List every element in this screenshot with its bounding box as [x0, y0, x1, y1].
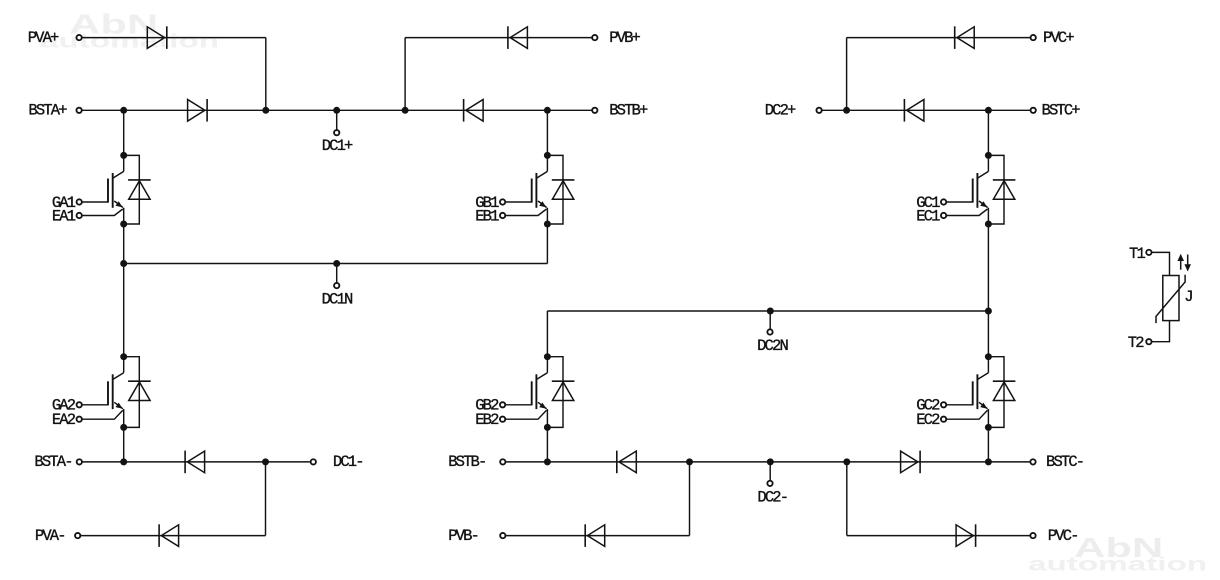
svg-text:PVC+: PVC+: [1043, 29, 1074, 47]
wire GB2 freewheel diode branch: [547, 357, 563, 428]
terminal EB1: [500, 213, 505, 218]
wire DC2+ bus row: [822, 109, 1030, 111]
terminal DC1-: [311, 459, 316, 464]
svg-text:automation: automation: [1028, 553, 1207, 575]
terminal EB2: [500, 417, 505, 422]
svg-text:DC1N: DC1N: [322, 291, 353, 309]
wire GA1 freewheel diode branch: [124, 155, 140, 224]
wire GA1 gate lead: [82, 201, 108, 203]
wire EB2 auxiliary emitter lead: [506, 410, 547, 419]
junction PVB+ branch on bus: [402, 107, 409, 114]
wire phase-B leg upper: [546, 110, 548, 155]
wire BSTA+ bus row: [82, 109, 593, 111]
svg-text:EB2: EB2: [475, 411, 499, 429]
svg-text:automation: automation: [40, 30, 219, 52]
terminal DC2N: [767, 329, 772, 334]
terminal DC2-: [767, 481, 772, 486]
wire PVA- row: [80, 535, 265, 537]
wire phase-C leg upper: [987, 110, 989, 155]
terminal DC1+: [334, 130, 339, 135]
terminal BSTC-: [1030, 459, 1035, 464]
svg-text:EC1: EC1: [916, 207, 940, 225]
terminal PVB-: [500, 533, 505, 538]
freewheel diode across GA1: [128, 180, 151, 199]
terminal PVC-: [1030, 533, 1035, 538]
terminal DC2+: [816, 108, 821, 113]
IGBT GC1: [973, 155, 989, 224]
wire GC1 freewheel diode branch: [988, 155, 1004, 224]
terminal GC2: [941, 402, 946, 407]
wire PVB- node drop: [689, 462, 691, 536]
wire DC2- stub: [769, 462, 771, 481]
svg-text:J: J: [1184, 288, 1192, 306]
wire DC1+ stub: [336, 110, 338, 130]
wire PVC+ row: [847, 37, 1031, 39]
svg-text:BSTB+: BSTB+: [609, 102, 648, 120]
svg-text:BSTB-: BSTB-: [448, 453, 485, 471]
freewheel diode across GA2: [128, 381, 151, 400]
wire EC2 auxiliary emitter lead: [947, 410, 988, 419]
wire GC1 gate lead: [947, 201, 973, 203]
diode PVB+: [508, 26, 528, 49]
terminal EA2: [77, 417, 82, 422]
svg-text:DC2-: DC2-: [757, 489, 787, 507]
wire GB1 freewheel diode branch: [547, 155, 563, 224]
wire PVC- row: [847, 535, 1030, 537]
svg-text:T2: T2: [1128, 334, 1144, 352]
junction GB2 collector node: [544, 353, 551, 360]
wire EC1 auxiliary emitter lead: [947, 209, 988, 216]
wire GB1 emitter to DC1N: [546, 224, 548, 264]
junction PVB- node: [686, 458, 693, 465]
diode DC1+ to BSTB+: [464, 99, 484, 122]
IGBT GA2: [108, 357, 124, 428]
wire PVA+ branch drop: [265, 38, 267, 111]
wire GA2 gate lead: [82, 404, 108, 406]
junction BSTA+ / phase-A leg: [120, 107, 127, 114]
junction BSTC- / phase-C leg: [985, 458, 992, 465]
svg-text:DC2N: DC2N: [757, 337, 788, 355]
svg-text:EA1: EA1: [52, 207, 76, 225]
junction GA2 collector node: [120, 353, 127, 360]
junction DC1- node: [262, 458, 269, 465]
terminal GA1: [77, 199, 82, 204]
terminal T2: [1146, 339, 1151, 344]
svg-text:PVA-: PVA-: [35, 527, 65, 545]
wire BSTA- row: [82, 461, 310, 463]
wire phase-A leg lower: [123, 427, 125, 462]
wire phase-B leg lower: [546, 427, 548, 462]
IGBT GB2: [532, 357, 548, 428]
terminal BSTB-: [500, 459, 505, 464]
diode BSTB-: [617, 451, 637, 474]
wire GA2 freewheel diode branch: [124, 357, 140, 428]
thermistor characteristic stroke: [1156, 275, 1185, 323]
wire phase-A mid leg: [123, 224, 125, 357]
terminal GB2: [500, 402, 505, 407]
wire DC1N bus: [124, 263, 548, 265]
wire phase-A leg upper: [123, 110, 125, 155]
terminal GB1: [500, 199, 505, 204]
junction GB1 collector node: [544, 152, 551, 159]
junction BSTB- / phase-B leg: [544, 458, 551, 465]
freewheel diode across GB2: [552, 381, 575, 400]
junction DC1+ tap: [333, 107, 340, 114]
terminal T1: [1146, 250, 1151, 255]
wire EA1 auxiliary emitter lead: [82, 209, 123, 216]
wire PVB+ branch drop: [404, 38, 406, 111]
terminal DC1N: [334, 283, 339, 288]
wire PVB+ row: [405, 37, 592, 39]
diode PVC+: [955, 26, 975, 49]
wire PVA+ row: [82, 37, 266, 39]
junction DC2- tap: [767, 458, 774, 465]
wire phase-C leg lower: [987, 427, 989, 462]
wire PVC- node drop: [846, 462, 848, 536]
junction BSTB+ / phase-B leg: [544, 107, 551, 114]
junction GC2 collector node: [985, 353, 992, 360]
svg-text:T1: T1: [1129, 245, 1145, 263]
svg-text:PVA+: PVA+: [28, 29, 59, 47]
IGBT GB1: [532, 155, 548, 224]
junction PVC- node: [843, 458, 850, 465]
wire DC2N bus: [547, 310, 988, 312]
terminal PVC+: [1031, 35, 1036, 40]
junction DC2N tap: [767, 308, 774, 315]
junction GB2 emitter node: [544, 424, 551, 431]
junction PVC+ branch on bus: [843, 107, 850, 114]
diode PVC-: [956, 524, 976, 547]
wire DC2N stub: [769, 311, 771, 329]
junction GC1 emitter node: [985, 221, 992, 228]
wire T2 lead: [1152, 321, 1170, 342]
wire GC2 freewheel diode branch: [988, 357, 1004, 428]
wire GB2 collector to DC2N: [546, 311, 548, 357]
terminal PVA+: [76, 35, 81, 40]
diode DC2+ to BSTC+: [904, 99, 924, 122]
terminal GC1: [941, 199, 946, 204]
wire DC1- node drop: [265, 462, 267, 536]
svg-text:PVB+: PVB+: [609, 29, 640, 47]
freewheel diode across GC1: [993, 180, 1016, 199]
diode PVB-: [585, 524, 605, 547]
wire GB2 gate lead: [506, 404, 532, 406]
wire GB1 gate lead: [506, 201, 532, 203]
junction DC1N tap: [333, 260, 340, 267]
freewheel diode across GC2: [993, 381, 1016, 400]
svg-text:DC2+: DC2+: [765, 102, 796, 120]
terminal EC2: [941, 417, 946, 422]
terminal BSTA-: [77, 459, 82, 464]
wire EB1 auxiliary emitter lead: [506, 209, 547, 216]
wire BSTB- to BSTC- row: [506, 461, 1031, 463]
junction GC1 collector node: [985, 152, 992, 159]
terminal PVA-: [75, 533, 80, 538]
junction DC1N on phase-A leg: [120, 260, 127, 267]
svg-text:PVB-: PVB-: [448, 527, 478, 545]
thermistor down arrow: [1184, 255, 1191, 272]
svg-text:BSTA+: BSTA+: [28, 102, 67, 120]
wire PVB- row: [506, 535, 690, 537]
wire DC1N stub: [336, 264, 338, 284]
diode BSTA-: [185, 451, 205, 474]
terminal EC1: [941, 213, 946, 218]
svg-text:DC1+: DC1+: [322, 137, 353, 155]
freewheel diode across GB1: [552, 180, 575, 199]
terminal GA2: [77, 402, 82, 407]
junction GA1 emitter node: [120, 221, 127, 228]
wire EA2 auxiliary emitter lead: [82, 410, 123, 419]
IGBT GC2: [973, 357, 989, 428]
terminal EA1: [77, 213, 82, 218]
wire GC2 gate lead: [947, 404, 973, 406]
svg-text:EA2: EA2: [52, 411, 76, 429]
wire T1 lead: [1152, 252, 1170, 275]
diode PVA-: [159, 524, 179, 547]
junction GA2 emitter node: [120, 424, 127, 431]
junction BSTA- / phase-A leg: [120, 458, 127, 465]
junction GB1 emitter node: [544, 221, 551, 228]
junction PVA+ branch on bus: [262, 107, 269, 114]
diode BSTA+: [188, 99, 208, 122]
svg-text:DC1-: DC1-: [333, 453, 363, 471]
diode BSTC-: [901, 451, 921, 474]
wire phase-C mid leg: [987, 224, 989, 357]
junction GC2 emitter node: [985, 424, 992, 431]
terminal PVB+: [592, 35, 597, 40]
terminal BSTB+: [592, 108, 597, 113]
terminal BSTC+: [1031, 108, 1036, 113]
diode PVA+ boost: [147, 26, 167, 49]
svg-text:PVC-: PVC-: [1048, 527, 1078, 545]
svg-text:BSTA-: BSTA-: [34, 453, 71, 471]
junction GA1 collector node: [120, 152, 127, 159]
junction DC2N on phase-C leg: [985, 308, 992, 315]
svg-text:EB1: EB1: [475, 207, 499, 225]
wire PVC+ branch drop: [846, 38, 848, 111]
thermistor up arrow: [1177, 254, 1184, 270]
svg-text:BSTC+: BSTC+: [1042, 102, 1081, 120]
junction BSTC+ / phase-C leg: [985, 107, 992, 114]
IGBT GA1: [108, 155, 124, 224]
svg-text:BSTC-: BSTC-: [1046, 453, 1083, 471]
terminal BSTA+: [76, 108, 81, 113]
thermistor body: [1163, 276, 1179, 321]
svg-text:EC2: EC2: [916, 411, 940, 429]
